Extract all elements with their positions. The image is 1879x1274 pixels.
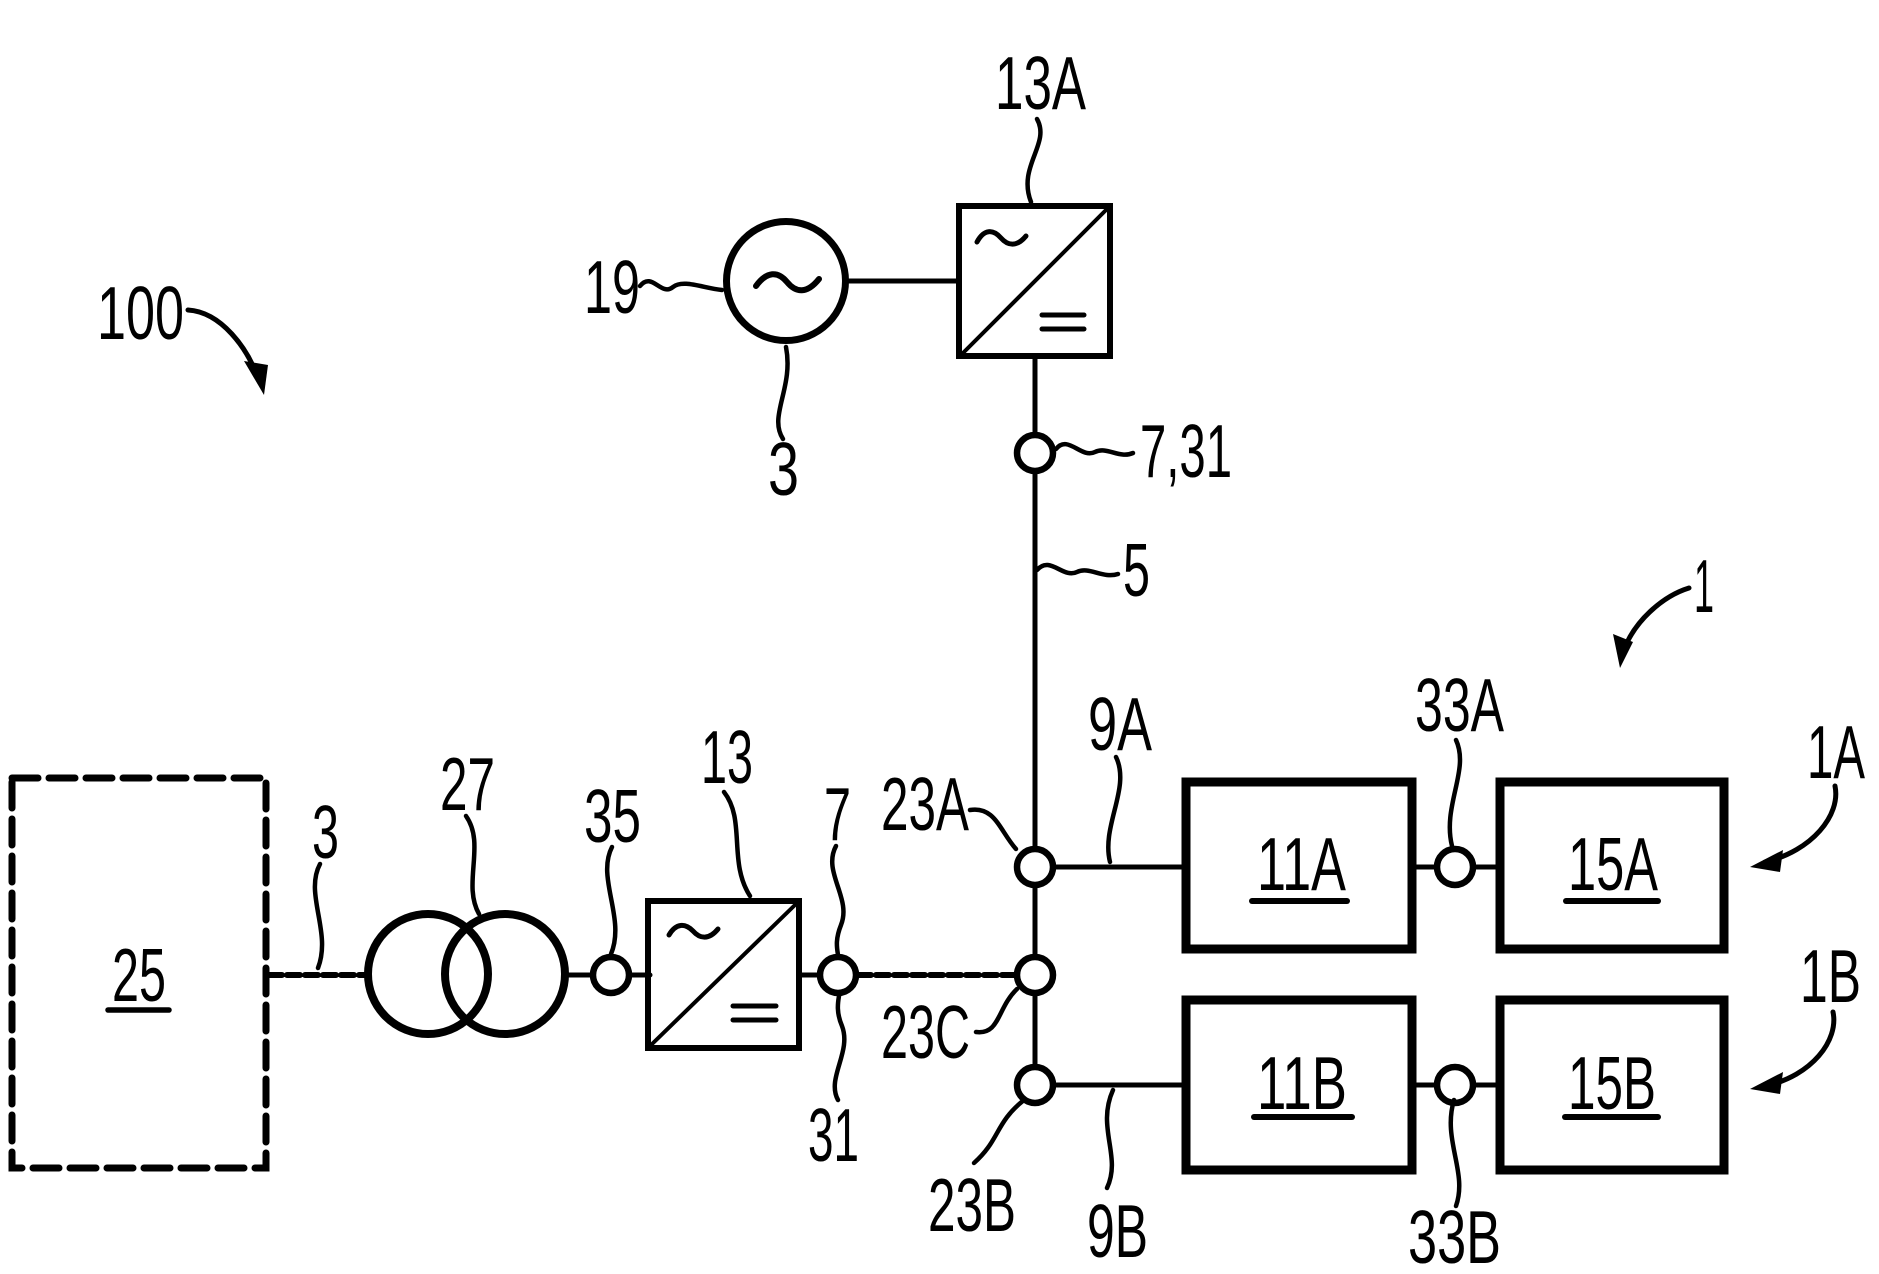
svg-text:9A: 9A xyxy=(1088,682,1152,766)
svg-text:11A: 11A xyxy=(1257,822,1346,906)
svg-text:100: 100 xyxy=(97,271,184,355)
svg-text:9B: 9B xyxy=(1087,1189,1148,1273)
svg-text:31: 31 xyxy=(808,1093,859,1177)
svg-text:19: 19 xyxy=(584,245,640,329)
svg-text:11B: 11B xyxy=(1257,1041,1347,1125)
svg-text:23A: 23A xyxy=(881,762,969,846)
svg-text:35: 35 xyxy=(584,774,641,858)
svg-text:23B: 23B xyxy=(928,1163,1016,1247)
svg-text:1A: 1A xyxy=(1807,710,1865,794)
svg-text:13A: 13A xyxy=(995,41,1086,125)
svg-text:33B: 33B xyxy=(1408,1195,1501,1274)
svg-text:1: 1 xyxy=(1694,544,1714,628)
svg-text:33A: 33A xyxy=(1415,663,1504,747)
svg-text:1B: 1B xyxy=(1800,934,1861,1018)
svg-text:7,31: 7,31 xyxy=(1140,409,1232,493)
svg-text:23C: 23C xyxy=(881,990,970,1074)
svg-text:3: 3 xyxy=(312,790,339,874)
svg-text:27: 27 xyxy=(440,742,495,826)
svg-text:15B: 15B xyxy=(1568,1041,1656,1125)
svg-text:5: 5 xyxy=(1123,528,1150,612)
svg-text:25: 25 xyxy=(112,933,166,1017)
svg-text:7: 7 xyxy=(824,772,851,856)
svg-text:15A: 15A xyxy=(1568,822,1658,906)
svg-text:3: 3 xyxy=(768,427,799,511)
svg-text:13: 13 xyxy=(701,715,753,799)
